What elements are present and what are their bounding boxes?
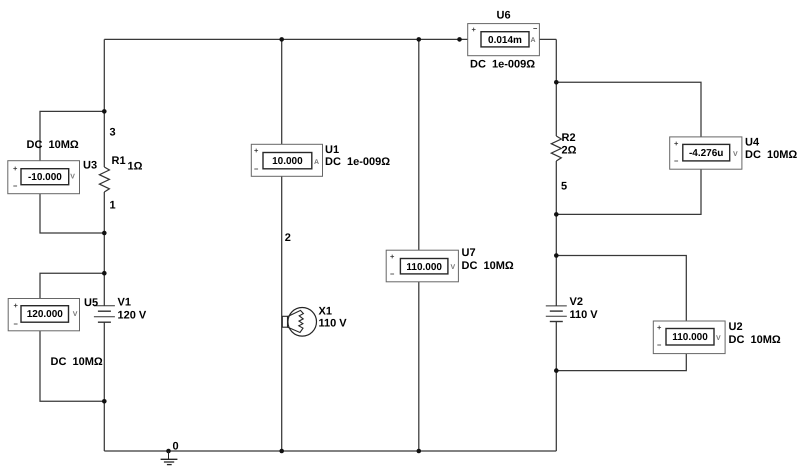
svg-text:−: −: [390, 270, 395, 279]
svg-text:+: +: [14, 301, 19, 310]
svg-text:10.000: 10.000: [272, 156, 303, 167]
svg-text:120.000: 120.000: [27, 309, 64, 320]
svg-text:-4.276u: -4.276u: [689, 148, 723, 159]
wire U2 loop bottom: [556, 354, 686, 371]
ammeter U6: [468, 24, 540, 56]
battery V1: [94, 306, 115, 322]
svg-text:+: +: [13, 164, 18, 173]
svg-text:U4: U4: [745, 137, 760, 149]
svg-text:−: −: [657, 341, 662, 350]
wire left main branch upper (node 3 segment): [103, 39, 105, 167]
wire U5 loop top: [40, 273, 104, 298]
voltmeter U7: [386, 250, 458, 282]
svg-text:−: −: [13, 182, 18, 191]
wire bottom bus (node 0): [104, 450, 556, 452]
svg-text:0.014m: 0.014m: [488, 35, 522, 46]
svg-text:DC 10MΩ: DC 10MΩ: [729, 334, 781, 346]
svg-text:U7: U7: [462, 247, 476, 259]
svg-text:X1: X1: [319, 306, 332, 318]
resistor R1: [99, 167, 109, 192]
svg-text:5: 5: [561, 181, 567, 193]
svg-text:V: V: [733, 151, 738, 158]
wire left main branch below V1 to bottom bus: [103, 322, 105, 451]
svg-text:−: −: [254, 165, 259, 174]
svg-text:110.000: 110.000: [406, 262, 442, 273]
svg-text:−: −: [14, 320, 19, 329]
svg-text:DC 1e-009Ω: DC 1e-009Ω: [325, 156, 390, 168]
svg-text:U2: U2: [729, 321, 743, 333]
wire branch 2 lower (below U1 through lamp to bottom bus): [281, 176, 283, 451]
svg-text:V: V: [716, 335, 721, 342]
svg-text:120 V: 120 V: [118, 310, 147, 322]
junction U2 loop top on V2 branch: [554, 253, 559, 258]
wire branch 3 upper (above voltmeter U7): [418, 39, 420, 250]
svg-text:-10.000: -10.000: [28, 172, 62, 183]
svg-text:+: +: [657, 323, 662, 332]
svg-text:A: A: [531, 37, 536, 44]
wire U5 loop bottom: [40, 331, 104, 402]
junction node 1 (U3 loop bottom): [102, 231, 107, 236]
svg-text:DC 10MΩ: DC 10MΩ: [51, 356, 103, 368]
svg-text:U3: U3: [83, 160, 97, 172]
svg-text:+: +: [472, 25, 477, 34]
svg-text:110 V: 110 V: [319, 318, 348, 330]
battery V2: [546, 306, 567, 322]
wire left main branch between R1 and V1: [103, 192, 105, 306]
svg-text:R1: R1: [112, 155, 126, 167]
wire U3 loop top: [40, 111, 104, 160]
svg-text:2: 2: [285, 232, 291, 244]
wire U6 right pin to R2 branch: [539, 38, 556, 40]
voltmeter U4: [670, 137, 742, 169]
wire branch 3 lower (below U7 to bottom bus): [418, 282, 420, 451]
voltmeter U5: [8, 299, 79, 331]
junction top bus / branch 2: [279, 37, 284, 42]
ground (node 0): [161, 451, 178, 465]
svg-text:0: 0: [173, 441, 179, 453]
wire U2 loop top: [556, 256, 686, 322]
junction bottom bus / branch 3: [417, 449, 422, 454]
svg-text:DC 10MΩ: DC 10MΩ: [27, 139, 79, 151]
svg-text:+: +: [674, 139, 679, 148]
junction U4 loop top on R2 branch: [554, 80, 559, 85]
svg-text:U1: U1: [325, 144, 339, 156]
svg-text:110 V: 110 V: [570, 309, 599, 321]
wire top bus from left branch to U6 left pin: [104, 38, 467, 40]
svg-text:U6: U6: [497, 10, 511, 22]
ammeter U1: [251, 144, 322, 176]
svg-text:A: A: [314, 159, 319, 166]
junction U2 loop bottom on V2 branch: [554, 368, 559, 373]
svg-text:V2: V2: [570, 296, 583, 308]
svg-text:R2: R2: [562, 132, 576, 144]
junction U5 loop bottom: [102, 399, 107, 404]
junction ground on bottom bus: [166, 449, 171, 454]
svg-text:+: +: [254, 146, 259, 155]
wire U4 loop bottom: [556, 169, 701, 214]
resistor R2: [551, 136, 561, 161]
wire R2/V2 branch between R2 and V2: [555, 161, 557, 306]
wire R2/V2 branch upper (U6 to R2): [555, 39, 557, 136]
svg-text:1: 1: [110, 200, 116, 212]
svg-text:DC 10MΩ: DC 10MΩ: [745, 149, 797, 161]
svg-text:2Ω: 2Ω: [562, 145, 577, 157]
svg-text:+: +: [390, 252, 395, 261]
svg-text:V: V: [73, 311, 78, 318]
voltmeter U3: [8, 161, 80, 194]
svg-text:−: −: [674, 157, 679, 166]
wire branch 2 upper (above ammeter U1): [281, 39, 283, 144]
junction node 3 (U3 loop top): [102, 109, 107, 114]
junction U5 loop top: [102, 271, 107, 276]
svg-text:DC 10MΩ: DC 10MΩ: [462, 260, 514, 272]
wire U4 loop top: [556, 82, 701, 137]
svg-text:3: 3: [110, 127, 116, 139]
junction top bus / branch 3: [417, 37, 422, 42]
lamp X1: [282, 308, 316, 337]
svg-text:1Ω: 1Ω: [128, 161, 143, 173]
svg-text:V1: V1: [118, 297, 131, 309]
wire R2/V2 branch below V2 to bottom bus: [555, 322, 557, 452]
junction node 5 (U4 loop bottom): [554, 212, 559, 217]
svg-text:110.000: 110.000: [672, 332, 708, 343]
wire U3 loop bottom: [40, 194, 104, 233]
svg-text:−: −: [533, 24, 538, 33]
svg-text:V: V: [451, 264, 456, 271]
junction top bus / U6 pin: [457, 37, 462, 42]
junction bottom bus / branch 2: [279, 449, 284, 454]
voltmeter U2: [653, 321, 725, 354]
svg-text:U5: U5: [84, 297, 98, 309]
svg-text:V: V: [70, 174, 75, 181]
svg-text:DC 1e-009Ω: DC 1e-009Ω: [470, 59, 535, 71]
